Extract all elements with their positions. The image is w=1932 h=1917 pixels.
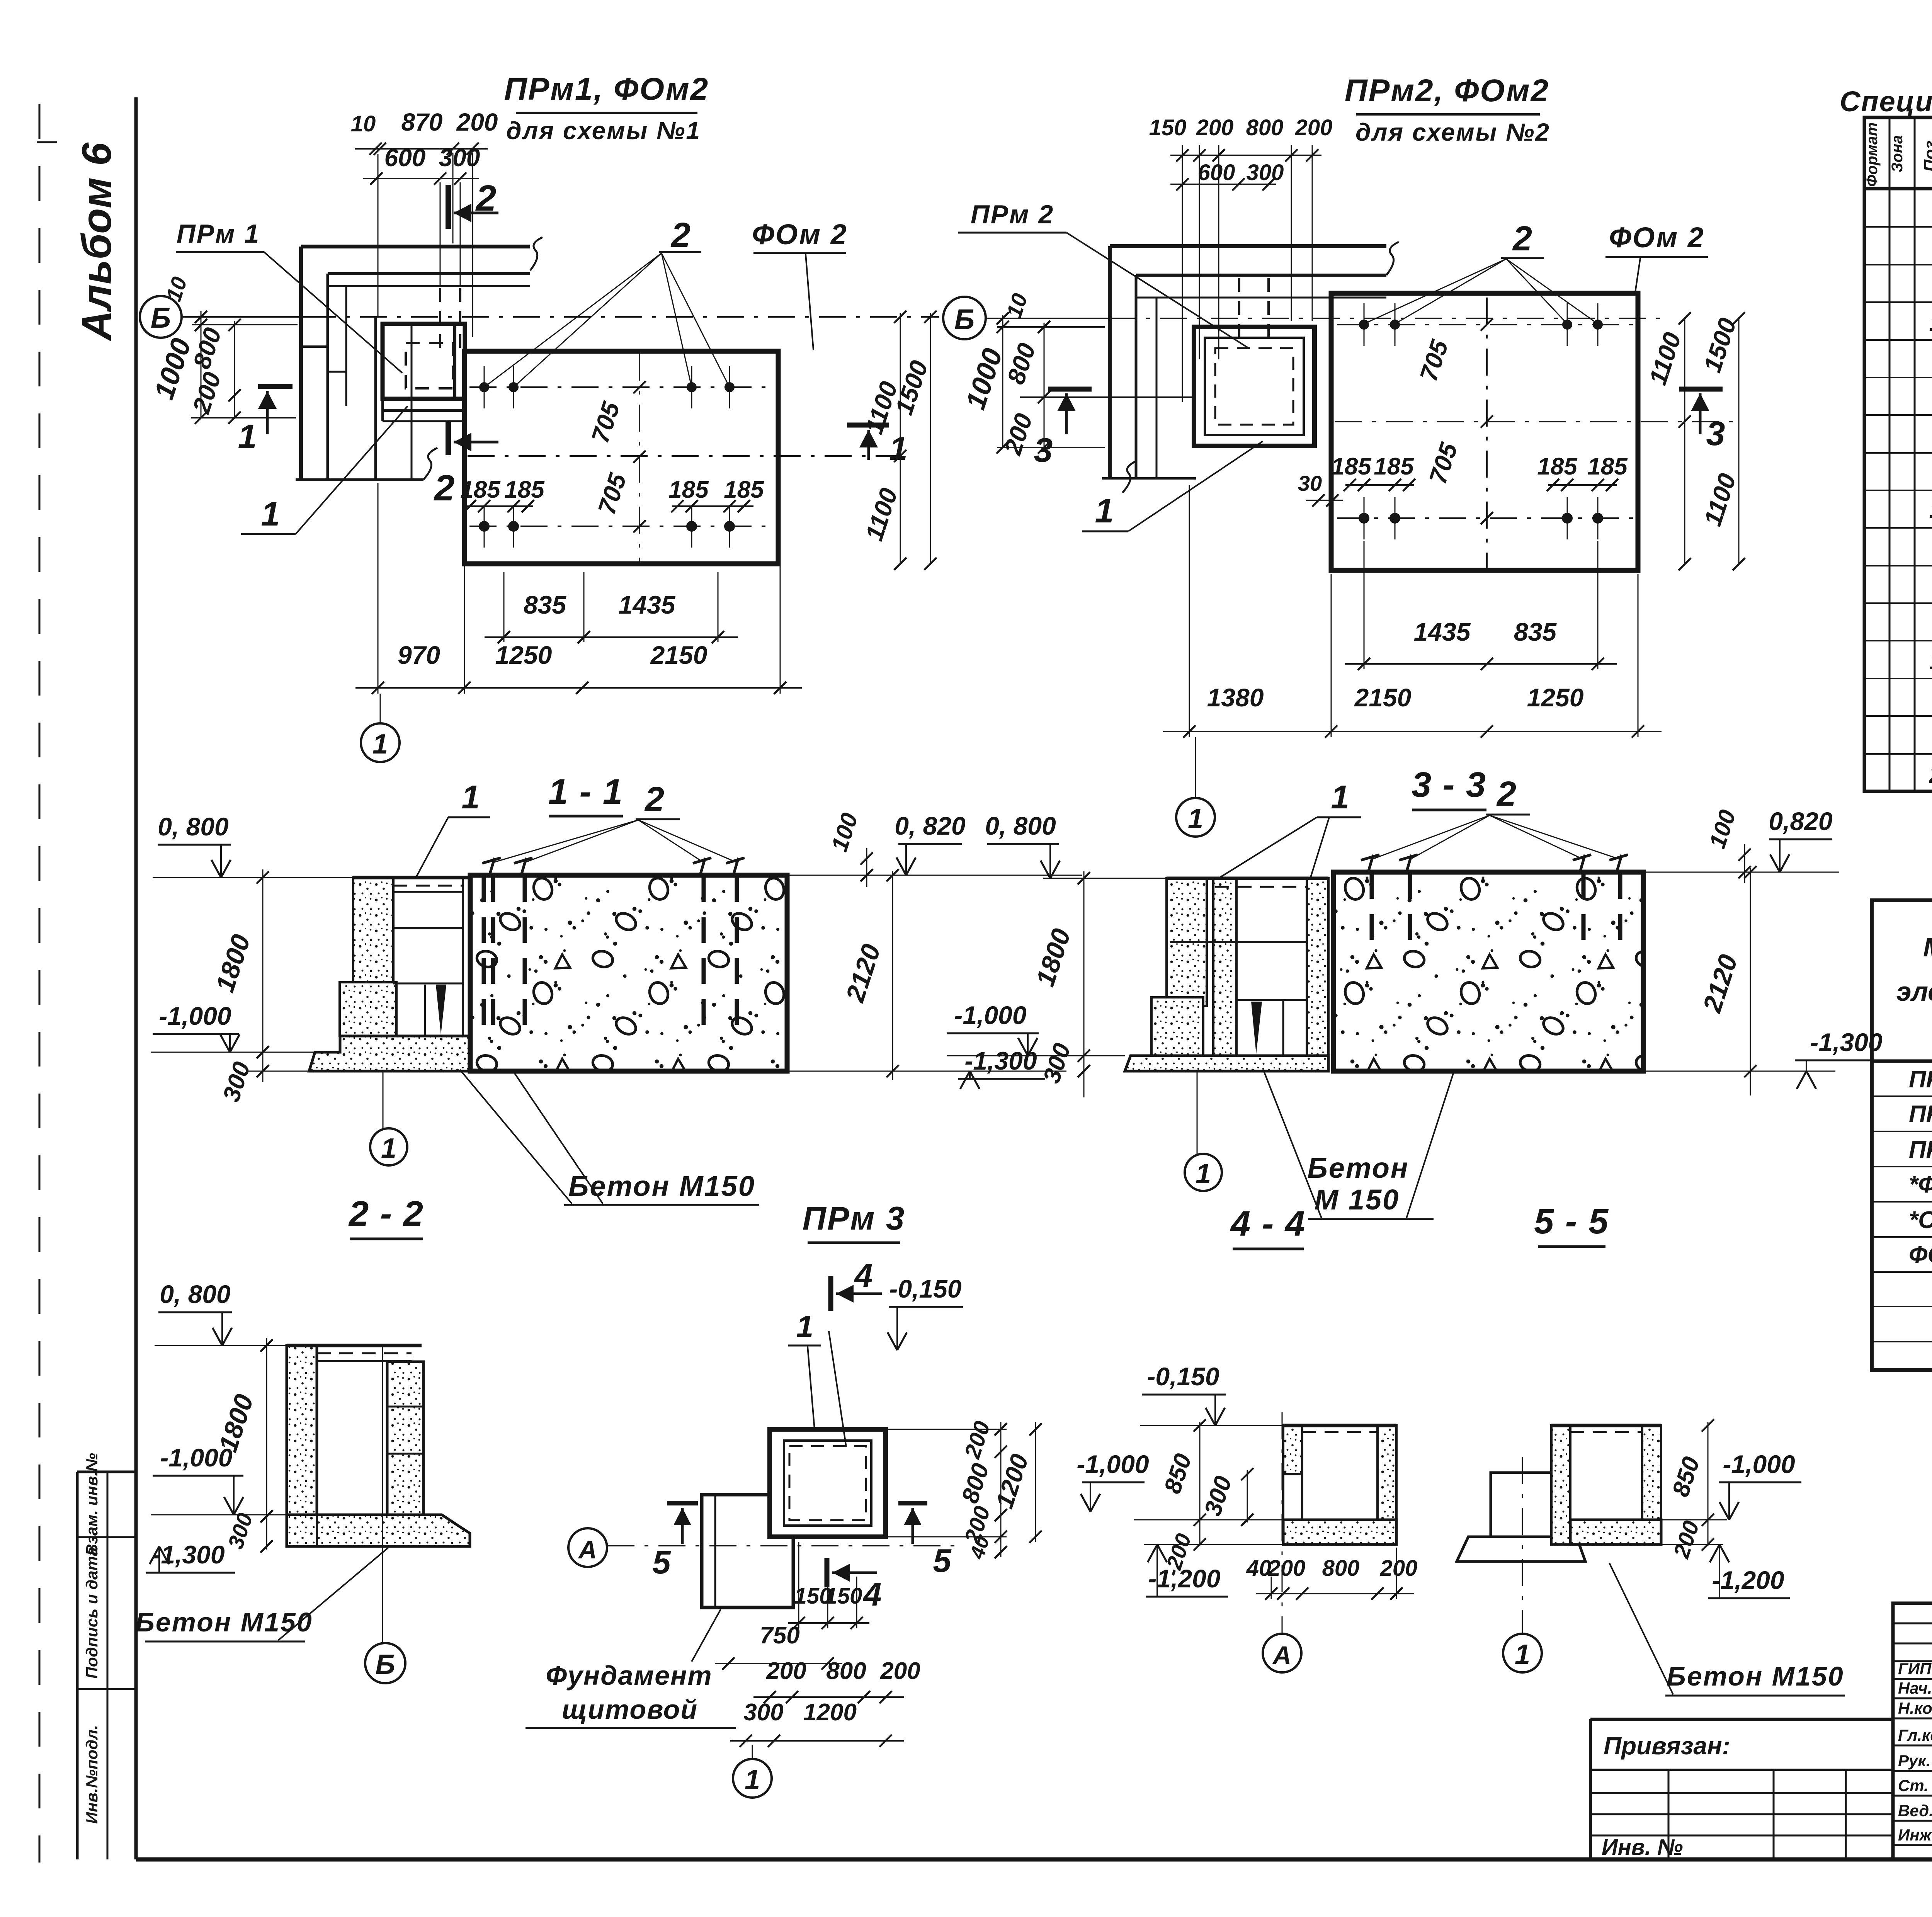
section 5-5 dims 850/200 right: [1708, 1422, 1709, 1546]
svg-text:ПРм 3: ПРм 3: [1909, 1136, 1932, 1163]
pit PRm1 ledge below: [381, 399, 384, 421]
svg-text:0, 800: 0, 800: [158, 812, 229, 841]
svg-text:ПРм 1: ПРм 1: [1909, 1066, 1932, 1093]
section 3-3 left wall stippled: [1167, 878, 1207, 1006]
section mark 2 bottom: [446, 420, 451, 455]
svg-text:3: 3: [1706, 414, 1725, 452]
scheme1 pit top edge extension: [192, 324, 298, 325]
axis B circle scheme2: [943, 297, 986, 339]
svg-text:185: 185: [1331, 453, 1372, 480]
foundation FOm2 rectangle scheme2: [1331, 293, 1638, 570]
pit PRm2 outer square: [1194, 327, 1315, 446]
section 5-5 bottom slab stippled: [1570, 1520, 1661, 1544]
FOm2 bolts scheme1: [479, 382, 489, 392]
section mark 1 right scheme1: [847, 423, 889, 428]
svg-text:ФОм 2: ФОм 2: [752, 218, 848, 250]
svg-text:Инв. №: Инв. №: [1602, 1835, 1683, 1860]
svg-text:200: 200: [1295, 115, 1333, 140]
section 4-4 bottom slab stippled: [1283, 1520, 1396, 1544]
section 1-1 anchor hooks: [482, 858, 501, 863]
svg-text:Инжен.: Инжен.: [1898, 1826, 1932, 1844]
svg-text:-1,200: -1,200: [1712, 1566, 1784, 1594]
svg-text:Ст. инж.: Ст. инж.: [1898, 1776, 1932, 1795]
section 2-2 bottom slab: [287, 1515, 470, 1546]
svg-text:1435: 1435: [619, 590, 676, 619]
section 3-3 pit lid: [1167, 877, 1328, 880]
svg-text:185: 185: [460, 476, 501, 503]
svg-text:*Оп 1: *Оп 1: [1909, 1207, 1932, 1233]
svg-text:Бетон М150: Бетон М150: [1667, 1661, 1844, 1691]
section 5-5 left wall stippled: [1551, 1425, 1570, 1544]
section 1-1 left dims 1800/300: [262, 869, 264, 1082]
svg-text:Бетон М150: Бетон М150: [568, 1170, 755, 1202]
section 1-1 pit right wall lines: [462, 878, 464, 1036]
svg-text:для схемы №2: для схемы №2: [1355, 118, 1550, 146]
PRm3 outer square: [770, 1429, 886, 1537]
PRm3 axis A circle: [568, 1528, 607, 1567]
svg-text:-1,000: -1,000: [160, 1443, 232, 1472]
svg-text:0, 800: 0, 800: [985, 811, 1056, 840]
section 4-4 inner walls: [1301, 1425, 1303, 1520]
svg-text:200: 200: [1268, 1556, 1306, 1581]
section 2-2 dims 1800/300: [266, 1338, 267, 1550]
section 1-1 anchor dashed bars: [482, 876, 486, 1039]
svg-text:М 150: М 150: [1315, 1184, 1400, 1216]
svg-text:Привязан:: Привязан:: [1604, 1732, 1730, 1760]
section 2-2 right column stippled: [387, 1362, 423, 1515]
section 1-1 column circle 1: [383, 1072, 384, 1128]
svg-text:2 - 2: 2 - 2: [348, 1194, 424, 1233]
svg-text:2: 2: [1929, 762, 1932, 788]
svg-text:30: 30: [1298, 471, 1322, 495]
plan scheme1 extension lines from dims: [378, 154, 379, 316]
plan scheme1 wall band break squiggle: [530, 237, 543, 270]
svg-text:-1,000: -1,000: [1723, 1450, 1795, 1478]
section 3-3 dim 2120 right: [1750, 868, 1751, 1095]
steel table data rows: [1872, 1095, 1932, 1097]
PRm3 axis A line: [607, 1545, 958, 1546]
svg-text:Альбом 6: Альбом 6: [73, 142, 120, 342]
svg-text:-0,150: -0,150: [1147, 1362, 1219, 1391]
svg-text:Гл.констр.: Гл.констр.: [1898, 1726, 1932, 1744]
svg-text:Фундамент: Фундамент: [546, 1660, 712, 1691]
section 4-4 left wall stippled: [1283, 1425, 1302, 1474]
sheet binding edge dash line: [39, 104, 41, 1863]
section 2-2 inner cavity lines: [316, 1345, 318, 1546]
svg-text:Рук. гр.: Рук. гр.: [1898, 1752, 1932, 1770]
section 3-3 dim 100 right: [1744, 844, 1745, 883]
section 4-4 axis line: [1282, 1412, 1283, 1634]
svg-text:200: 200: [1380, 1556, 1418, 1581]
PRm3 section mark 5 left: [667, 1501, 698, 1505]
svg-text:элемента: элемента: [1896, 976, 1932, 1007]
specification row lines: [1864, 189, 1932, 190]
section 5-5 top edge and lid: [1551, 1424, 1661, 1427]
svg-text:4: 4: [862, 1576, 881, 1613]
PRm3 column circle 1: [752, 1745, 753, 1759]
sheet frame bottom border: [136, 1857, 1932, 1862]
svg-text:800: 800: [826, 1658, 866, 1684]
svg-text:1: 1: [1095, 492, 1114, 530]
pit PRm1 hidden dashed verticals through band: [439, 288, 441, 348]
FOm2 bolts scheme2: [1359, 320, 1369, 330]
svg-text:1 - 1: 1 - 1: [548, 772, 623, 811]
svg-text:200: 200: [1196, 115, 1234, 140]
plan scheme1 wall steps: [301, 345, 328, 348]
svg-text:185: 185: [1587, 453, 1628, 480]
section 3-3 left dims 1800/300: [1083, 871, 1085, 1097]
svg-text:300: 300: [743, 1699, 783, 1726]
svg-text:Зона: Зона: [1889, 135, 1906, 173]
svg-text:ПРм2, ФОм2: ПРм2, ФОм2: [1345, 73, 1550, 108]
plan scheme2 wall band horizontals: [1110, 244, 1386, 248]
705 dim ticks scheme1: [633, 381, 646, 393]
steel table frame: [1872, 900, 1932, 1370]
section 1-1 concrete massif: [470, 875, 787, 1071]
svg-text:А: А: [578, 1535, 597, 1564]
svg-text:1: 1: [1929, 648, 1932, 675]
svg-text:Бетон: Бетон: [1307, 1152, 1409, 1184]
svg-text:Марка: Марка: [1923, 932, 1932, 962]
svg-text:Б: Б: [376, 1649, 395, 1680]
svg-text:185: 185: [1374, 453, 1414, 480]
scheme2 right vertical dims: [1684, 317, 1685, 564]
svg-text:185: 185: [724, 476, 764, 503]
svg-text:Б: Б: [151, 302, 171, 334]
svg-text:200: 200: [880, 1658, 920, 1684]
section 5-5 pedestal: [1491, 1473, 1551, 1537]
svg-text:Б: Б: [954, 303, 975, 335]
svg-text:4: 4: [854, 1257, 872, 1294]
svg-text:750: 750: [760, 1622, 799, 1649]
section 4-4 top edge and lid: [1283, 1424, 1396, 1427]
svg-text:5: 5: [933, 1543, 952, 1579]
svg-text:3 - 3: 3 - 3: [1412, 765, 1486, 805]
svg-text:ПРм1, ФОм2: ПРм1, ФОм2: [504, 71, 709, 107]
attestation column box: [77, 1471, 136, 1473]
svg-text:970: 970: [398, 641, 440, 669]
axis B line scheme2: [986, 318, 1109, 319]
section 1-1 pit lid: [353, 876, 470, 879]
FOm2 bolt axes scheme2: [1337, 324, 1634, 325]
svg-text:Спецификация к приямкам ПРм2÷П: Спецификация к приямкам ПРм2÷ПРм4,фундам…: [1840, 85, 1932, 117]
PRm3 right dims 200/800/200/40: [1000, 1422, 1002, 1557]
section 5-5 axis line: [1522, 1457, 1523, 1634]
section 4-4 right wall stippled: [1378, 1425, 1396, 1520]
section 5-5 right wall stippled: [1642, 1425, 1661, 1544]
axis B circle scheme1: [140, 296, 182, 338]
svg-text:2: 2: [1496, 775, 1516, 813]
plan scheme2 wall verticals: [1108, 246, 1112, 478]
svg-text:0, 820: 0, 820: [895, 811, 966, 840]
top-left margin tick: [37, 141, 57, 143]
section 3-3 concrete massif: [1333, 872, 1643, 1071]
section 3-3 base slab: [1125, 1056, 1328, 1071]
pit PRm1 hidden dashed square: [406, 343, 453, 388]
section 3-3 anchor dashed bars: [1370, 873, 1374, 951]
svg-text:1435: 1435: [1414, 617, 1471, 646]
section mark 3 right: [1679, 387, 1723, 392]
svg-text:-0,150: -0,150: [889, 1274, 961, 1303]
svg-text:1: 1: [1331, 779, 1349, 816]
PRm3 shield foundation rectangle: [702, 1495, 793, 1607]
svg-text:-1,200: -1,200: [1148, 1564, 1220, 1593]
sheet frame left border: [134, 97, 138, 1859]
section 2-2 column circle B: [382, 1345, 383, 1643]
svg-text:5 - 5: 5 - 5: [1534, 1202, 1609, 1241]
svg-text:2: 2: [670, 216, 690, 255]
svg-text:*ФЛм 1: *ФЛм 1: [1909, 1171, 1932, 1198]
svg-text:185: 185: [1537, 453, 1578, 480]
svg-text:-1,000: -1,000: [159, 1002, 231, 1030]
svg-text:-1,000: -1,000: [954, 1001, 1026, 1029]
svg-text:ПРм 2: ПРм 2: [1909, 1101, 1932, 1128]
section 1-1 left pit wall stippled: [353, 878, 393, 990]
svg-text:ПРм 2: ПРм 2: [971, 200, 1054, 229]
svg-text:1250: 1250: [1527, 683, 1584, 712]
specification table frame: [1864, 117, 1932, 791]
section 4-4 dims 850/300/-200: [1199, 1422, 1201, 1546]
svg-text:200: 200: [456, 108, 498, 136]
section 3-3 shear key wedge: [1251, 1002, 1262, 1054]
pit PRm2 inner wall line: [1205, 338, 1304, 435]
svg-text:200: 200: [766, 1658, 806, 1684]
svg-text:Инв.№подл.: Инв.№подл.: [83, 1725, 101, 1824]
section 1-1 shear key wedge: [436, 985, 446, 1035]
svg-text:870: 870: [401, 108, 443, 136]
svg-text:Подпись и дата: Подпись и дата: [83, 1547, 101, 1679]
svg-text:3: 3: [1034, 431, 1053, 469]
section 3-3 column circle 1: [1197, 1072, 1198, 1154]
svg-text:1: 1: [796, 1309, 814, 1344]
section mark 1 left: [258, 384, 293, 389]
section 5-5 column circle 1: [1503, 1634, 1542, 1672]
svg-text:185: 185: [504, 476, 545, 503]
svg-text:600: 600: [1198, 160, 1235, 185]
section 3-3 middle wall stippled: [1213, 878, 1236, 1056]
svg-text:300: 300: [439, 144, 480, 172]
svg-text:2: 2: [644, 780, 664, 819]
svg-text:835: 835: [524, 590, 566, 619]
section 2-2 lid: [287, 1344, 422, 1347]
svg-text:Нач. отд: Нач. отд: [1898, 1679, 1932, 1697]
svg-text:2150: 2150: [1354, 683, 1412, 712]
svg-text:1: 1: [381, 1133, 396, 1164]
section 3-3 tie line: [1170, 941, 1307, 943]
svg-text:Поз.: Поз.: [1921, 136, 1932, 172]
svg-text:А: А: [1272, 1641, 1291, 1669]
section 1-1 base slab: [309, 1036, 470, 1071]
svg-text:800: 800: [1246, 115, 1284, 140]
svg-text:Формат: Формат: [1864, 122, 1881, 187]
plan scheme1 wall bottom edge with break: [296, 478, 423, 481]
section 3-3 anchor hooks: [1361, 855, 1379, 860]
svg-text:4 - 4: 4 - 4: [1230, 1204, 1306, 1243]
svg-text:1: 1: [889, 430, 907, 467]
plan scheme2 extension lines: [1182, 145, 1183, 402]
section 1-1 step block: [340, 982, 396, 1036]
section 3-3 right wall stippled: [1307, 878, 1328, 1056]
svg-text:300: 300: [1247, 160, 1284, 185]
svg-text:Взам. инв.№: Взам. инв.№: [83, 1453, 101, 1556]
svg-text:1: 1: [745, 1764, 760, 1795]
scheme1 right vertical dims 1100/1500: [900, 313, 901, 564]
pit PRm2 dashed hidden lines: [1215, 348, 1293, 425]
svg-text:ПРм 3: ПРм 3: [803, 1200, 906, 1237]
section 4-4 level line -1.000: [1134, 1519, 1283, 1521]
svg-text:185: 185: [668, 476, 709, 503]
svg-text:40: 40: [1246, 1556, 1272, 1581]
svg-text:-1,000: -1,000: [1077, 1450, 1149, 1478]
PRm3 inner square: [784, 1441, 871, 1526]
svg-text:2150: 2150: [650, 641, 707, 669]
svg-text:ГИП: ГИП: [1898, 1660, 1932, 1678]
svg-text:-1,300: -1,300: [1810, 1028, 1882, 1056]
svg-text:1: 1: [1929, 310, 1932, 336]
svg-text:1: 1: [238, 417, 257, 456]
svg-text:ФОм 2: ФОм 2: [1609, 221, 1705, 253]
svg-text:ФОм 2: ФОм 2: [1909, 1242, 1932, 1268]
svg-text:1: 1: [1188, 803, 1203, 834]
705 dims scheme2: [1481, 318, 1493, 331]
svg-text:1200: 1200: [803, 1699, 857, 1726]
section 5-5 inner walls: [1569, 1425, 1571, 1520]
svg-text:0,820: 0,820: [1769, 807, 1832, 835]
svg-text:1250: 1250: [495, 641, 552, 669]
PRm3 section mark 5 right: [898, 1501, 927, 1505]
section 1-1 pit inner ties: [393, 927, 463, 929]
svg-text:1: 1: [461, 779, 480, 816]
svg-text:щитовой: щитовой: [562, 1694, 698, 1725]
svg-text:835: 835: [1514, 617, 1557, 646]
svg-text:ПРм 1: ПРм 1: [177, 219, 260, 248]
svg-text:1: 1: [1196, 1158, 1211, 1189]
section 2-2 left wall stippled: [287, 1345, 317, 1546]
PRm3 right dim 1200: [1035, 1422, 1036, 1542]
pit PRm1 outer square: [383, 324, 465, 399]
svg-text:0, 800: 0, 800: [160, 1280, 231, 1308]
svg-text:5: 5: [652, 1544, 671, 1581]
svg-text:600: 600: [384, 144, 426, 172]
section 1-1 dim 100 right: [866, 848, 867, 887]
svg-text:1: 1: [261, 495, 280, 533]
section 1-1 dim 2120 right: [892, 871, 893, 1080]
section mark 3 left: [1048, 387, 1092, 392]
svg-text:2: 2: [475, 178, 497, 219]
svg-text:800: 800: [1322, 1556, 1360, 1581]
svg-text:1380: 1380: [1207, 683, 1264, 712]
foundation FOm2 rectangle scheme1: [464, 351, 778, 564]
section mark 2 top: [446, 185, 451, 229]
scheme1 pit ledge extension: [191, 417, 296, 418]
plan scheme1 wall verticals: [299, 247, 303, 480]
section 5-5 pedestal base: [1457, 1537, 1585, 1561]
privyazan table: [1590, 1718, 1893, 1721]
svg-text:1: 1: [372, 729, 388, 760]
PRm3 section mark 4 top: [828, 1276, 833, 1311]
column mark circle 1 scheme1: [380, 694, 381, 723]
plan scheme2 wall bottom with break: [1102, 477, 1196, 480]
axis B line scheme1: [182, 316, 309, 318]
svg-text:Вед.инж.: Вед.инж.: [1898, 1801, 1932, 1820]
section 3-3 step block: [1151, 997, 1203, 1056]
plan scheme1 wall band horizontals: [301, 245, 530, 248]
svg-text:150: 150: [1149, 115, 1187, 140]
svg-text:2: 2: [1512, 219, 1532, 258]
signature table frame: [1893, 1603, 1932, 1859]
PRm3 hidden dashed square: [789, 1446, 866, 1520]
svg-text:10: 10: [351, 111, 376, 136]
svg-text:1: 1: [1929, 497, 1932, 523]
FOm2 bolt axes scheme1: [469, 386, 771, 388]
svg-text:для схемы №1: для схемы №1: [506, 117, 701, 145]
PRm3 section mark 4 bottom: [825, 1558, 830, 1587]
column mark circle 1 scheme2: [1195, 737, 1196, 798]
section 4-4 axis circle A: [1263, 1634, 1301, 1672]
svg-text:1: 1: [1515, 1639, 1530, 1670]
svg-text:Н.контр.: Н.контр.: [1898, 1699, 1932, 1717]
svg-text:2: 2: [434, 468, 455, 509]
